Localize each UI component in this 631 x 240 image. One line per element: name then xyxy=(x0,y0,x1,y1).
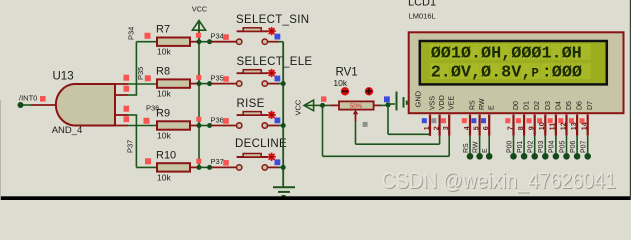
R9 right lead xyxy=(190,125,199,127)
wire LCD pin 7 down to net P00 xyxy=(513,136,515,154)
wire RV1-right to LCD VSS (inner U) xyxy=(387,105,389,135)
gate output pin xyxy=(32,104,57,106)
svg-text:7: 7 xyxy=(505,126,514,130)
button RISE xyxy=(212,125,236,127)
svg-text:14: 14 xyxy=(580,122,589,130)
black bottom bar xyxy=(0,196,631,200)
power VCC symbol top xyxy=(192,21,205,31)
pin-state square P35 xyxy=(223,76,229,82)
black left edge xyxy=(0,100,2,200)
svg-text:RV1: RV1 xyxy=(336,67,358,79)
resistor R9 xyxy=(157,121,190,129)
svg-text:ØØ1Ø.ØH,ØØØ1.ØH: ØØ1Ø.ØH,ØØØ1.ØH xyxy=(431,44,582,63)
interactive star of SELECT_ELE xyxy=(268,69,276,77)
RV1 knob plus xyxy=(365,87,373,95)
svg-text:RS: RS xyxy=(470,100,477,110)
button SELECT_SIN xyxy=(212,41,236,43)
gate input pin C xyxy=(115,114,128,116)
gate input pin D (row3 direct) xyxy=(115,125,128,127)
pin-state square on VCC stem xyxy=(196,33,201,38)
svg-text:P35: P35 xyxy=(136,67,145,80)
svg-text:10k: 10k xyxy=(333,78,347,88)
wire LCD pin 4 down to net RS xyxy=(469,136,471,154)
pin-state squares row left ends xyxy=(145,33,151,39)
svg-text:/INT0: /INT0 xyxy=(19,94,37,103)
RV1 knob minus xyxy=(341,87,349,95)
svg-text:50%: 50% xyxy=(350,104,363,110)
wire rail to button row4 xyxy=(199,166,212,168)
wire rail to button row2 xyxy=(199,83,212,85)
pin-state blue square at RV1 right xyxy=(384,96,390,102)
svg-text:P34: P34 xyxy=(127,27,136,40)
svg-text:10k: 10k xyxy=(157,47,171,57)
RV1 wiper arrow xyxy=(353,110,358,115)
potentiometer RV1 xyxy=(330,104,339,106)
pin-state square P36 xyxy=(223,118,229,124)
wire row3 direct xyxy=(128,125,157,127)
ground symbol bottom xyxy=(273,186,295,188)
svg-text:P36: P36 xyxy=(211,115,224,124)
pin-state square on VCC rail xyxy=(196,117,201,122)
svg-text:P06: P06 xyxy=(570,140,577,153)
svg-text:RW: RW xyxy=(479,98,486,110)
junction on VCC rail xyxy=(197,81,202,86)
svg-text:LM016L: LM016L xyxy=(409,12,436,21)
svg-text:D1: D1 xyxy=(524,101,531,110)
pin-state square INT0 xyxy=(40,96,46,102)
wire rail to button row1 xyxy=(199,41,212,43)
svg-text:D0: D0 xyxy=(513,101,520,110)
svg-text:VDD: VDD xyxy=(439,95,446,110)
svg-text:11: 11 xyxy=(548,123,557,131)
ground symbol sideways xyxy=(388,103,395,105)
button RISE right pin xyxy=(268,125,280,127)
gate input pin A (row2 direct) xyxy=(115,83,128,85)
svg-text:D5: D5 xyxy=(566,101,573,110)
R7 right lead xyxy=(190,41,199,43)
wire LCD pin 8 down to net P01 xyxy=(523,136,525,154)
svg-text:P07: P07 xyxy=(581,140,588,153)
interactive star of RISE xyxy=(268,111,276,119)
svg-text:R8: R8 xyxy=(156,66,170,78)
svg-text:12: 12 xyxy=(558,122,567,130)
R8 right lead xyxy=(190,83,199,85)
wire LCD pin 13 down to net P06 xyxy=(576,136,578,154)
svg-text:D6: D6 xyxy=(577,101,584,110)
svg-text:5: 5 xyxy=(471,126,480,130)
R10 right lead xyxy=(190,166,199,168)
button SELECT_ELE right pin xyxy=(268,83,280,85)
junction RV1-GND node xyxy=(386,102,391,107)
svg-text:P01: P01 xyxy=(517,140,524,153)
wire LCD pin 12 down to net P05 xyxy=(566,136,568,154)
wire row1 riser to gate pin B xyxy=(135,42,137,95)
svg-text:VEE: VEE xyxy=(449,96,456,110)
resistor R8 xyxy=(157,79,190,87)
svg-text:P03: P03 xyxy=(538,140,545,153)
svg-text:AND_4: AND_4 xyxy=(52,125,83,136)
junction VCC-RV1 node xyxy=(320,103,325,108)
svg-text:10k: 10k xyxy=(157,89,171,99)
pin-state square P37 xyxy=(223,160,229,166)
svg-text:R7: R7 xyxy=(156,24,170,36)
svg-text:VSS: VSS xyxy=(430,96,437,110)
svg-text:R9: R9 xyxy=(156,108,170,120)
svg-text:P02: P02 xyxy=(528,140,535,153)
interactive star of SELECT_SIN xyxy=(268,27,276,35)
svg-text:10k: 10k xyxy=(157,172,171,182)
svg-text:D4: D4 xyxy=(555,101,562,110)
pin-state blue square of SELECT_SIN xyxy=(275,34,281,40)
svg-text:RS: RS xyxy=(463,143,470,153)
wire RV1 wiper to LCD VDD (middle U) xyxy=(355,121,357,144)
wire rail to button row3 xyxy=(199,125,212,127)
junction on VCC rail xyxy=(197,165,202,170)
LCD character cells xyxy=(430,44,439,60)
svg-text:GND: GND xyxy=(414,90,423,107)
svg-text:P37: P37 xyxy=(126,140,135,153)
svg-text:1: 1 xyxy=(422,126,431,130)
resistor R7 xyxy=(157,38,190,46)
pin-state blue square of DECLINE xyxy=(275,159,281,165)
svg-text:SELECT_ELE: SELECT_ELE xyxy=(237,56,313,68)
pin-state blue square of SELECT_ELE xyxy=(275,76,281,82)
button SELECT_SIN right pin xyxy=(268,41,280,43)
pin-state squares on gate inputs xyxy=(124,75,130,81)
svg-text:E: E xyxy=(482,148,489,153)
svg-text:R10: R10 xyxy=(156,149,176,161)
svg-text:D2: D2 xyxy=(534,101,541,110)
LCD LCD1 body xyxy=(409,32,624,113)
wire VCC rail vertical xyxy=(198,42,200,168)
wire button ground rail xyxy=(282,42,284,187)
pin-state square on VCC rail xyxy=(196,75,201,80)
power VCC symbol mid left-pointing xyxy=(304,100,314,111)
svg-text:SELECT_SIN: SELECT_SIN xyxy=(236,14,309,26)
wire LCD pin 14 down to net P07 xyxy=(587,136,589,154)
svg-text:10k: 10k xyxy=(157,131,171,141)
pin-state blue square of RISE xyxy=(275,118,281,124)
svg-text:E: E xyxy=(489,105,496,110)
svg-text:2: 2 xyxy=(431,126,440,130)
button SELECT_ELE xyxy=(212,83,236,85)
junction on VCC rail xyxy=(197,123,202,128)
svg-text:6: 6 xyxy=(481,126,490,130)
svg-text:9: 9 xyxy=(527,126,536,130)
svg-text:10: 10 xyxy=(537,122,546,130)
svg-text:P35: P35 xyxy=(211,73,224,82)
RV1 right lead xyxy=(374,104,381,106)
wire LCD pin 9 down to net P02 xyxy=(534,136,536,154)
svg-text:CSDN @weixin_47626041: CSDN @weixin_47626041 xyxy=(382,168,617,193)
svg-text:D3: D3 xyxy=(545,101,552,110)
pin-state square P34 xyxy=(223,34,229,40)
svg-text:P05: P05 xyxy=(559,140,566,153)
svg-text:VCC: VCC xyxy=(192,5,207,14)
wire VCC node to LCD VEE (outer U) xyxy=(322,105,324,156)
svg-text:3: 3 xyxy=(441,126,450,130)
wire row2 direct xyxy=(128,83,157,85)
node INT0 terminal xyxy=(18,102,24,108)
svg-text:RW: RW xyxy=(472,141,479,153)
resistor R10 xyxy=(157,163,190,171)
svg-text:U13: U13 xyxy=(53,71,74,83)
wire VCC to RV1 xyxy=(317,104,331,106)
AND gate U13 (AND_4) body xyxy=(56,84,115,126)
wire LCD pin 11 down to net P04 xyxy=(555,136,557,154)
svg-text:LCD1: LCD1 xyxy=(408,0,436,9)
svg-text:P37: P37 xyxy=(211,157,224,166)
black right edge xyxy=(630,0,631,200)
wire row4 riser to gate pin C xyxy=(135,115,137,167)
wire LCD pin 10 down to net P03 xyxy=(544,136,546,154)
pin-state square at VCC-RV1 node xyxy=(321,96,326,101)
interactive star of DECLINE xyxy=(268,153,276,161)
svg-text:8: 8 xyxy=(516,126,525,130)
svg-text:P34: P34 xyxy=(211,32,224,41)
svg-text:DECLINE: DECLINE xyxy=(235,138,287,150)
button DECLINE right pin xyxy=(268,166,280,168)
wire LCD pin 5 down to net RW xyxy=(479,136,481,154)
svg-text:D7: D7 xyxy=(587,101,594,110)
svg-text:VCC: VCC xyxy=(294,99,303,115)
svg-text:4: 4 xyxy=(462,126,471,130)
wire output to INT0 xyxy=(21,104,33,106)
grey indicator square RV1 xyxy=(363,122,368,127)
gate input pin B xyxy=(115,94,128,96)
pin-state square on VCC rail xyxy=(196,159,201,164)
svg-text:P00: P00 xyxy=(506,140,513,153)
button DECLINE xyxy=(212,166,236,168)
wire LCD pin 6 down to net E xyxy=(488,136,490,154)
svg-text:13: 13 xyxy=(569,122,578,130)
svg-text:2.ØV,Ø.8V,P:ØØØ: 2.ØV,Ø.8V,P:ØØØ xyxy=(431,63,582,82)
junction on VCC rail xyxy=(197,39,202,44)
svg-text:RISE: RISE xyxy=(237,98,265,110)
LCD screen xyxy=(420,41,607,84)
svg-text:P04: P04 xyxy=(549,140,556,153)
